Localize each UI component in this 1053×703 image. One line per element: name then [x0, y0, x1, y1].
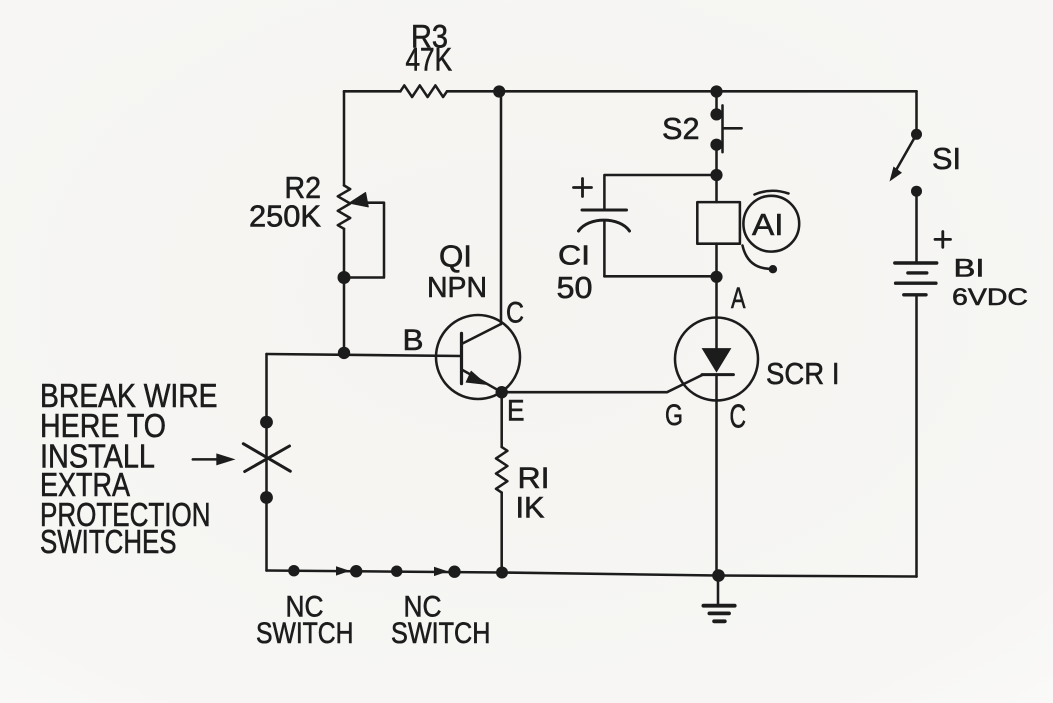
- S1 contact lower: [911, 186, 922, 197]
- wire inside SCR top: [715, 318, 718, 349]
- junction node top S2: [710, 85, 722, 97]
- break contact lower: [260, 491, 273, 504]
- svg-text:A: A: [731, 282, 746, 315]
- junction node ground: [712, 569, 725, 582]
- wire E to R1: [500, 392, 503, 447]
- plus sign B1: [935, 232, 951, 248]
- junction node R2 wiper: [338, 271, 351, 284]
- S2 contact upper: [710, 108, 722, 120]
- battery B1 plates: [895, 261, 937, 264]
- svg-text:AI: AI: [752, 207, 784, 242]
- bell A1 top arc: [755, 191, 789, 195]
- wire left vertical break section: [265, 354, 268, 571]
- svg-text:50: 50: [557, 270, 593, 305]
- plus sign C1: [574, 179, 592, 197]
- wire SCR anode lead: [715, 277, 718, 318]
- resistor R2: [338, 185, 350, 228]
- wire S1 to battery: [915, 191, 918, 262]
- NC switch 1 arrowhead: [336, 566, 350, 575]
- svg-text:47K: 47K: [406, 42, 453, 78]
- break X mark: [243, 444, 290, 472]
- Q1 base bar: [460, 333, 463, 383]
- NC switch 2 arrowhead: [434, 567, 448, 576]
- ground bars: [703, 604, 734, 608]
- SCR thyristor triangle: [702, 348, 732, 373]
- svg-text:NPN: NPN: [427, 272, 487, 304]
- switch S2 bar: [723, 105, 742, 152]
- svg-text:250K: 250K: [249, 199, 321, 234]
- junction node emitter: [496, 386, 508, 398]
- wire left vertical to R2: [343, 91, 346, 185]
- wire SCR cathode down: [715, 375, 718, 576]
- junction node C1 bottom: [710, 271, 722, 283]
- relay coil A1 box: [697, 202, 740, 244]
- wire C1 bottom: [604, 275, 716, 278]
- svg-text:IK: IK: [516, 492, 545, 525]
- annotation arrow shaft: [193, 458, 220, 461]
- svg-text:E: E: [507, 395, 525, 428]
- wire R2 lower lead: [343, 229, 346, 353]
- NC switch 2 contact right: [448, 566, 460, 578]
- ground stem: [717, 576, 720, 606]
- svg-text:CI: CI: [558, 240, 590, 271]
- junction node base: [338, 347, 350, 359]
- wire R1 bottom lead: [500, 493, 503, 573]
- wire battery to bottom rail: [915, 295, 918, 577]
- NC switch 1 contact left: [288, 565, 299, 576]
- break contact upper: [260, 416, 273, 429]
- switch S1 blade: [895, 134, 917, 172]
- resistor R3: [400, 85, 447, 97]
- svg-text:SWITCH: SWITCH: [391, 617, 491, 650]
- transistor Q1 circle: [436, 315, 520, 399]
- wire top rail: [344, 90, 917, 93]
- annotation arrowhead: [216, 453, 235, 465]
- svg-text:S2: S2: [662, 111, 700, 146]
- wire S2 top lead: [715, 92, 718, 115]
- svg-text:RI: RI: [518, 462, 550, 495]
- wire S2 bottom lead: [715, 145, 718, 175]
- wire A1 bottom lead: [715, 244, 718, 277]
- NC switch 2 contact left: [391, 566, 402, 577]
- bell A1 gong: [743, 196, 799, 252]
- svg-text:G: G: [665, 399, 683, 432]
- NC switch 1 contact right: [350, 565, 362, 577]
- junction node top collector: [493, 85, 505, 97]
- wire collector vertical: [500, 91, 503, 324]
- Q1 emitter arrowhead: [466, 371, 488, 386]
- wire bottom rail: [267, 571, 917, 577]
- svg-text:SCR I: SCR I: [766, 356, 840, 391]
- Q1 collector diagonal: [463, 324, 502, 344]
- wire C1 top: [604, 175, 716, 209]
- svg-text:C: C: [730, 398, 747, 435]
- wire base B: [267, 354, 462, 356]
- wire right vertical top: [915, 91, 918, 134]
- R2 wiper arrowhead: [350, 193, 369, 207]
- capacitor C1 top plate: [582, 209, 627, 212]
- S1 blade arrowhead: [890, 167, 903, 182]
- capacitor C1 curved plate: [579, 220, 630, 231]
- S2 contact lower: [710, 139, 722, 151]
- bell striker ball: [769, 265, 777, 273]
- svg-text:SWITCHES: SWITCHES: [40, 524, 177, 561]
- SCR1 body circle: [675, 318, 758, 401]
- bell A1 striker arm: [743, 246, 769, 269]
- junction node C1 top: [710, 169, 722, 181]
- wire C1 inner lead: [603, 222, 606, 277]
- svg-text:B: B: [403, 324, 424, 357]
- R2 wiper bracket: [349, 203, 384, 278]
- svg-text:6VDC: 6VDC: [952, 284, 1028, 311]
- svg-text:QI: QI: [439, 239, 472, 274]
- svg-text:SI: SI: [932, 141, 961, 176]
- SCR cathode bar: [702, 373, 733, 376]
- wire gate from E to SCR: [502, 375, 703, 392]
- S1 contact upper: [911, 129, 922, 140]
- svg-text:SWITCH: SWITCH: [256, 617, 354, 650]
- svg-text:BI: BI: [954, 255, 985, 283]
- wire A1 top lead: [715, 175, 718, 202]
- junction node R1 bottom: [496, 567, 508, 579]
- resistor R1: [496, 447, 507, 493]
- svg-text:C: C: [506, 297, 524, 330]
- Q1 emitter diagonal: [463, 370, 502, 392]
